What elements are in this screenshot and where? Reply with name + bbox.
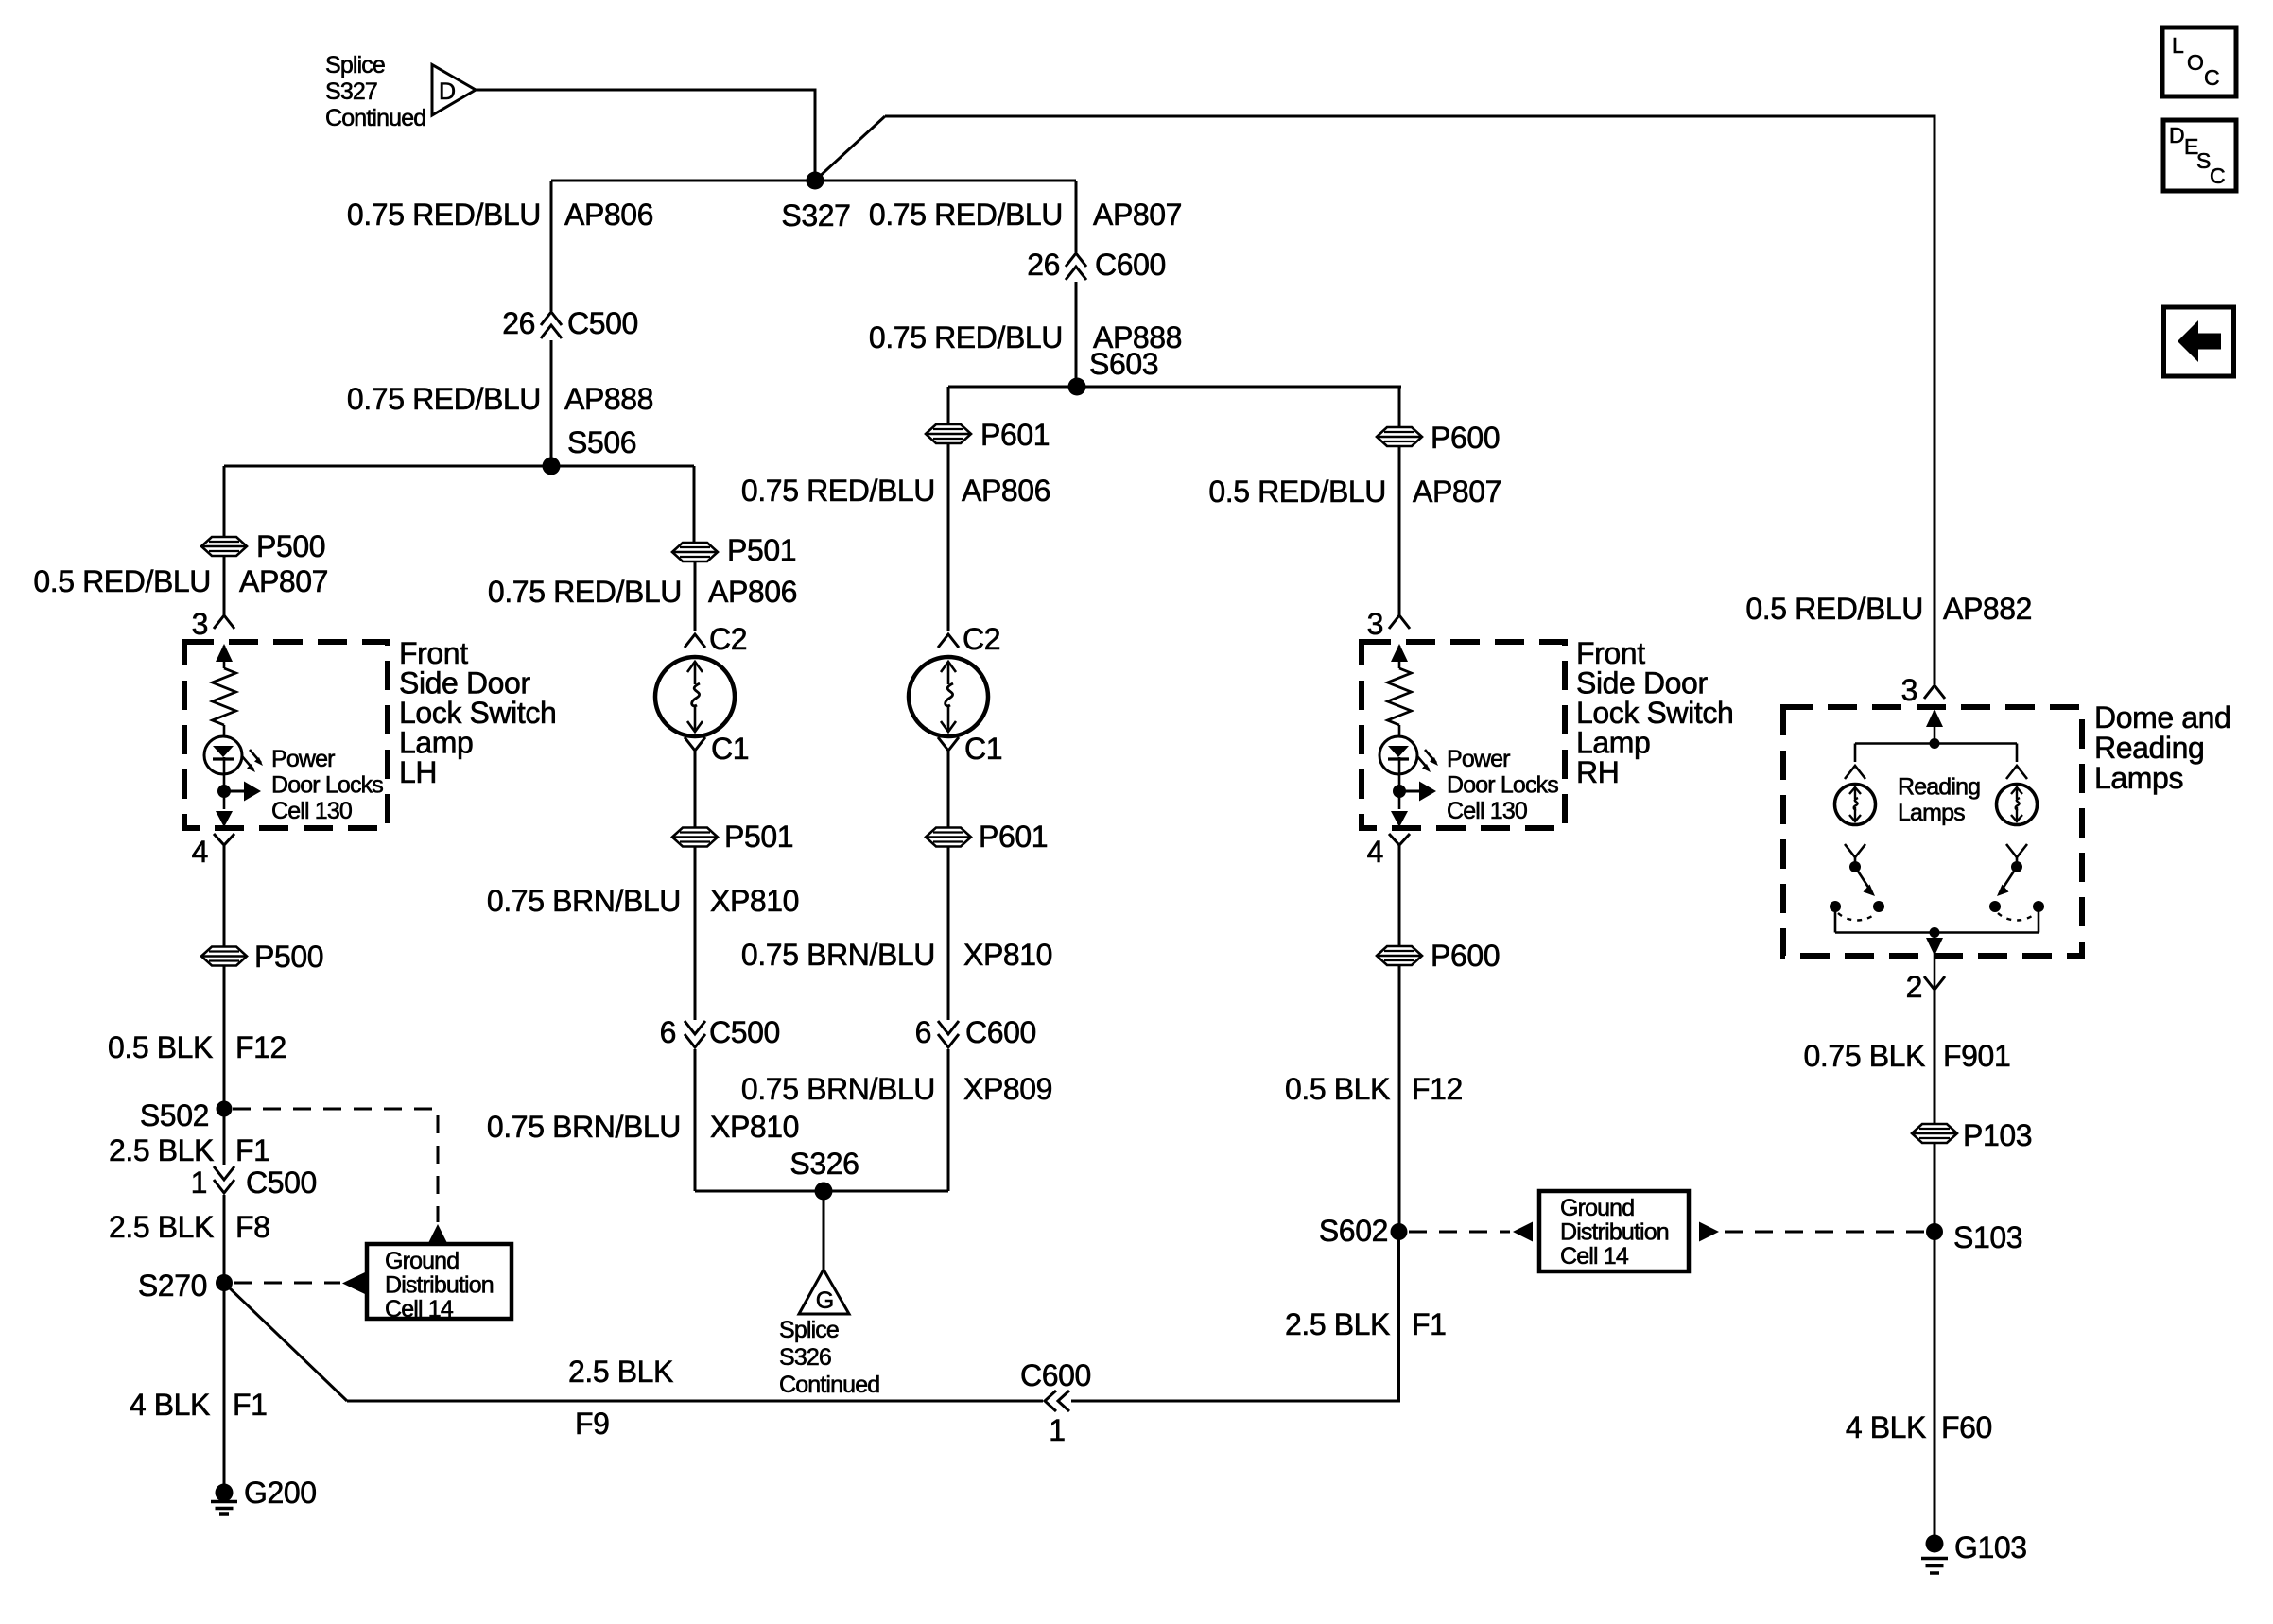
component box: dome and reading lamps: [1783, 707, 2082, 956]
wire: S326 bus: [695, 1190, 948, 1193]
svg-text:P600: P600: [1431, 939, 1500, 973]
svg-text:2.5 BLK: 2.5 BLK: [109, 1210, 214, 1244]
label: 0.5 RED/BLU AP807 (RH): [1208, 475, 1501, 509]
wire: S506 right drop to P501: [693, 466, 696, 542]
svg-text:S506: S506: [567, 425, 636, 459]
wire: S327 diagonal riser: [815, 116, 885, 181]
svg-text:G200: G200: [244, 1476, 317, 1510]
svg-text:Cell 130: Cell 130: [271, 798, 352, 824]
svg-text:0.5 RED/BLU: 0.5 RED/BLU: [33, 564, 211, 598]
wire: pin4 down to P600 lower: [1398, 845, 1401, 945]
lamp: reading lamp (left): [1835, 785, 1876, 825]
svg-text:AP806: AP806: [962, 474, 1050, 508]
svg-text:Distribution: Distribution: [1560, 1219, 1669, 1246]
pin chevron below right reading lamp: [2006, 844, 2027, 857]
svg-text:S327: S327: [325, 78, 377, 105]
wire: dome internal tee bus: [1855, 742, 2017, 745]
wire with arrow into box RH: [1391, 644, 1408, 668]
wire: AP807 segment to lock switch lamp LH: [223, 557, 226, 616]
wire with arrow into box LH: [216, 644, 233, 668]
svg-text:C600: C600: [1020, 1358, 1091, 1392]
svg-text:XP810: XP810: [963, 938, 1052, 972]
node and reference arrow to Power Door Locks (RH): [1393, 782, 1436, 802]
svg-text:6: 6: [915, 1015, 931, 1049]
svg-text:0.75 RED/BLU: 0.75 RED/BLU: [741, 474, 935, 508]
pin 2 of dome and reading lamps: [1906, 970, 1945, 1004]
label: 0.75 RED/BLU AP888: [347, 382, 653, 416]
wire: top feed to dome lamps: [885, 116, 1935, 684]
label: 0.75 RED/BLU AP806: [347, 198, 653, 232]
svg-text:Power: Power: [1447, 746, 1510, 772]
svg-text:0.75 BRN/BLU: 0.75 BRN/BLU: [487, 884, 681, 918]
connector C500 pin 6 (in-line chevrons): [660, 1015, 780, 1049]
label: 2.5 BLK F1 (LH): [109, 1133, 270, 1167]
node: dome feed tee: [1930, 738, 1940, 749]
svg-text:G103: G103: [1954, 1530, 2027, 1564]
svg-text:LH: LH: [399, 755, 437, 789]
dashed reference: S502 to Ground Distribution: [233, 1109, 448, 1244]
svg-text:1: 1: [191, 1166, 207, 1200]
wire: F1 segment: [223, 1109, 226, 1165]
node S326: [789, 1147, 859, 1201]
connector P103: [1912, 1118, 2032, 1152]
wire: S603 right drop to P600: [1398, 387, 1401, 426]
svg-text:4: 4: [192, 835, 208, 869]
wire: C1 down to P501 lower: [694, 751, 697, 827]
svg-text:C500: C500: [709, 1015, 780, 1049]
svg-text:Cell 130: Cell 130: [1447, 798, 1527, 824]
svg-text:0.75 BRN/BLU: 0.75 BRN/BLU: [741, 938, 935, 972]
label: 2.5 BLK F9: [568, 1355, 673, 1441]
wire: AP806 segment to courtesy lamp LH: [694, 562, 697, 632]
wire: dome bottom bus: [1835, 931, 2039, 934]
svg-text:P500: P500: [254, 940, 323, 974]
svg-text:Door Locks: Door Locks: [271, 772, 383, 799]
label: Front Side Door Lock Switch Lamp RH: [1576, 636, 1733, 789]
label: Front Side Door Lock Switch Lamp LH: [399, 636, 556, 789]
wire: XP810 segment to C600: [947, 847, 950, 1020]
LED lock switch lamp LH: [204, 736, 263, 774]
svg-text:Reading: Reading: [1898, 774, 1980, 801]
svg-text:0.75 RED/BLU: 0.75 RED/BLU: [488, 575, 682, 609]
svg-text:S326: S326: [789, 1147, 859, 1181]
switch: left reading lamp switch: [1830, 861, 1884, 921]
svg-text:Cell 14: Cell 14: [385, 1296, 454, 1322]
wire: resistor to LED RH: [1398, 725, 1401, 736]
wire: LED to node RH: [1398, 757, 1401, 809]
svg-text:0.5 RED/BLU: 0.5 RED/BLU: [1208, 475, 1386, 509]
svg-text:3: 3: [192, 607, 208, 641]
svg-text:S602: S602: [1319, 1214, 1388, 1248]
svg-text:Dome and: Dome and: [2094, 700, 2230, 734]
connector C500 pin 26 (in-line chevrons): [502, 306, 638, 340]
wire: left switch to bottom bus: [1834, 907, 1837, 933]
lamp: front side door courtesy lamp RH: [909, 657, 988, 736]
pin chevron below left reading lamp: [1845, 844, 1865, 857]
svg-text:Reading: Reading: [2094, 731, 2204, 765]
svg-text:F1: F1: [235, 1133, 270, 1167]
svg-text:2.5 BLK: 2.5 BLK: [568, 1355, 673, 1389]
svg-text:0.75 RED/BLU: 0.75 RED/BLU: [869, 198, 1063, 232]
splice continuation symbol G (Splice S326 Continued): [799, 1270, 849, 1314]
node S327: [781, 172, 850, 233]
connector C600 pin 1 on F9 run: [1020, 1358, 1091, 1447]
svg-text:AP806: AP806: [564, 198, 653, 232]
svg-text:0.75 BLK: 0.75 BLK: [1804, 1039, 1926, 1073]
svg-text:6: 6: [660, 1015, 676, 1049]
wire: AP888 segment to S603: [1075, 282, 1078, 387]
connector P600 (upper): [1377, 421, 1500, 455]
wire: AP807 drop from S327 (right): [1075, 181, 1078, 252]
connector P501 (lower): [672, 820, 793, 854]
svg-text:2: 2: [1906, 970, 1922, 1004]
label: 0.75 BRN/BLU XP810 (LH upper): [487, 884, 799, 918]
wire: F9 ground run (left part): [347, 1400, 1043, 1403]
svg-text:C2: C2: [709, 622, 747, 656]
svg-text:0.75 RED/BLU: 0.75 RED/BLU: [869, 320, 1063, 354]
svg-text:AP882: AP882: [1943, 592, 2032, 626]
svg-text:Lamps: Lamps: [2094, 761, 2183, 795]
splice continuation symbol D (Splice S327 Continued): [432, 65, 476, 116]
pin 3 of lock switch lamp RH: [1367, 607, 1410, 641]
svg-text:Cell 14: Cell 14: [1560, 1243, 1629, 1270]
wire: F1 segment to ground G200: [223, 1283, 226, 1484]
pin 3 of lock switch lamp LH: [192, 607, 234, 641]
connector P500 (lower): [201, 940, 323, 974]
connector C600 pin 26 (in-line chevrons): [1027, 248, 1166, 282]
svg-text:S603: S603: [1089, 347, 1158, 381]
svg-text:RH: RH: [1576, 755, 1619, 789]
svg-text:Splice: Splice: [779, 1317, 839, 1343]
wire: AP806 segment to courtesy lamp RH: [947, 444, 950, 632]
svg-text:Power: Power: [271, 746, 335, 772]
wire: F60 segment to ground G103: [1934, 1232, 1936, 1535]
label: 0.75 BLK F901: [1804, 1039, 2011, 1073]
svg-text:C600: C600: [1095, 248, 1166, 282]
node: dome bottom tee: [1930, 927, 1940, 938]
svg-text:2.5 BLK: 2.5 BLK: [1285, 1307, 1390, 1341]
svg-text:0.5 BLK: 0.5 BLK: [108, 1030, 213, 1064]
svg-text:Splice: Splice: [325, 52, 385, 78]
wire: splice D to S327: [476, 90, 815, 181]
svg-text:F1: F1: [1412, 1307, 1447, 1341]
svg-text:O: O: [2187, 50, 2204, 75]
svg-text:0.75 BRN/BLU: 0.75 BRN/BLU: [741, 1072, 935, 1106]
node S270: [138, 1269, 233, 1303]
wire: right switch to bottom bus: [2038, 907, 2040, 933]
label: 0.75 RED/BLU AP807: [869, 198, 1182, 232]
svg-text:C2: C2: [963, 622, 1000, 656]
pin 3 of dome and reading lamps: [1901, 673, 1945, 707]
label: Splice S327 Continued: [325, 52, 425, 131]
label: 0.75 RED/BLU AP806 (courtesy RH): [741, 474, 1050, 508]
svg-text:S270: S270: [138, 1269, 207, 1303]
label: 0.5 RED/BLU AP882: [1745, 592, 2032, 626]
wire with arrow out of dome box: [1926, 933, 1943, 999]
wire: S327 horizontal bus: [551, 180, 1076, 182]
node S506: [543, 425, 637, 475]
svg-text:0.75 RED/BLU: 0.75 RED/BLU: [347, 198, 541, 232]
node S602: [1319, 1214, 1408, 1248]
connector P601 (upper): [926, 418, 1050, 452]
connector C600 pin 6 (in-line chevrons): [915, 1015, 1036, 1049]
svg-text:C500: C500: [246, 1166, 317, 1200]
ground G103: [1921, 1530, 2027, 1573]
svg-text:0.5 RED/BLU: 0.5 RED/BLU: [1745, 592, 1923, 626]
node S103: [1926, 1220, 2022, 1254]
connector C500 pin 1 (in-line chevrons): [191, 1166, 317, 1200]
svg-text:0.75 RED/BLU: 0.75 RED/BLU: [347, 382, 541, 416]
svg-text:XP810: XP810: [710, 1110, 799, 1144]
svg-text:S103: S103: [1953, 1220, 2022, 1254]
reference icon box: LOC: [2162, 27, 2236, 96]
svg-text:P500: P500: [256, 529, 325, 563]
svg-text:P103: P103: [1963, 1118, 2032, 1152]
svg-text:4: 4: [1367, 835, 1383, 869]
node S502: [140, 1098, 233, 1132]
label: 0.5 BLK F12 (RH): [1285, 1072, 1463, 1106]
wire: left reading lamp drop: [1854, 744, 1857, 763]
svg-text:0.75 BRN/BLU: 0.75 BRN/BLU: [487, 1110, 681, 1144]
pin C1 of courtesy lamp LH: [685, 732, 749, 766]
switch: right reading lamp switch: [1989, 861, 2044, 921]
lamp: front side door courtesy lamp LH: [655, 657, 735, 736]
wire: right lamp to switch: [2016, 857, 2019, 867]
component box: front side door lock switch lamp LH: [184, 642, 388, 828]
label: Power Door Locks Cell 130 (RH): [1447, 746, 1558, 824]
pin C2 of courtesy lamp RH: [938, 622, 1000, 656]
wire: F12 segment to S602: [1398, 966, 1401, 1233]
wire: F901 segment to P103: [1934, 990, 1936, 1124]
svg-text:D: D: [2169, 123, 2185, 147]
svg-text:2.5 BLK: 2.5 BLK: [109, 1133, 214, 1167]
svg-text:P501: P501: [727, 533, 796, 567]
LED lock switch lamp RH: [1379, 736, 1438, 774]
svg-text:Distribution: Distribution: [385, 1272, 494, 1299]
pin 4 of lock switch lamp LH: [192, 834, 234, 869]
svg-text:XP809: XP809: [963, 1072, 1052, 1106]
connector P500 (upper): [201, 529, 325, 563]
resistor (lock switch lamp RH): [1388, 668, 1412, 725]
wire: F8 segment to S270: [223, 1195, 226, 1283]
connector P601 (lower): [926, 820, 1048, 854]
svg-text:AP807: AP807: [1093, 198, 1182, 232]
svg-text:P601: P601: [980, 418, 1050, 452]
svg-text:0.5 BLK: 0.5 BLK: [1285, 1072, 1390, 1106]
wire: S506 left drop to P500: [223, 466, 226, 536]
svg-text:3: 3: [1901, 673, 1917, 707]
wire: S506 horizontal bus: [224, 465, 694, 468]
pin C1 of courtesy lamp RH: [938, 732, 1002, 766]
svg-text:F12: F12: [235, 1030, 286, 1064]
resistor (lock switch lamp LH): [213, 668, 236, 725]
svg-text:S502: S502: [140, 1098, 209, 1132]
svg-text:D: D: [439, 78, 455, 105]
wire: AP882 drop to dome lamps: [1934, 116, 1936, 684]
label: 0.5 BLK F12 (LH): [108, 1030, 286, 1064]
wire with arrow out of box LH: [216, 811, 233, 827]
svg-text:Lamps: Lamps: [1898, 800, 1965, 826]
label: 4 BLK F1: [130, 1388, 268, 1422]
wire: pin4 down to P500 lower: [223, 845, 226, 946]
svg-text:P600: P600: [1431, 421, 1500, 455]
wire: right reading lamp drop: [2016, 744, 2019, 763]
svg-text:AP806: AP806: [708, 575, 797, 609]
label: Power Door Locks Cell 130 (LH): [271, 746, 383, 824]
svg-text:AP807: AP807: [239, 564, 328, 598]
svg-text:C1: C1: [711, 732, 749, 766]
label: 0.75 BRN/BLU XP809: [741, 1072, 1052, 1106]
svg-text:C: C: [2210, 164, 2226, 188]
wire: F12 segment to S502: [223, 966, 226, 1109]
svg-text:C600: C600: [965, 1015, 1036, 1049]
svg-text:4 BLK: 4 BLK: [130, 1388, 210, 1422]
wire: AP807 segment to lock switch lamp RH: [1398, 447, 1401, 616]
component box: front side door lock switch lamp RH: [1362, 642, 1565, 828]
label: Dome and Reading Lamps: [2094, 700, 2230, 795]
svg-text:F60: F60: [1941, 1410, 1992, 1444]
reference box: Ground Distribution Cell 14 (right): [1539, 1191, 1689, 1271]
svg-text:26: 26: [502, 306, 535, 340]
wire: C1 down to P601 lower: [947, 751, 950, 827]
svg-text:F12: F12: [1412, 1072, 1463, 1106]
svg-text:C1: C1: [964, 732, 1002, 766]
wire: left lamp to switch: [1854, 857, 1857, 867]
reference box: Ground Distribution Cell 14 (left): [367, 1244, 512, 1322]
svg-text:P601: P601: [979, 820, 1048, 854]
wire: resistor to LED LH: [223, 725, 226, 736]
svg-text:XP810: XP810: [710, 884, 799, 918]
lamp: reading lamp (right): [1997, 785, 2038, 825]
ground G200: [211, 1476, 317, 1514]
dashed reference: Ground Distribution to S103: [1699, 1222, 1925, 1242]
reference icon box: DESC: [2163, 120, 2236, 191]
dashed reference: S270 to Ground Distribution: [234, 1272, 365, 1294]
svg-text:Door Locks: Door Locks: [1447, 772, 1558, 799]
wire: S603 left drop to P601: [947, 387, 950, 423]
label: 0.5 RED/BLU AP807 (LH): [33, 564, 328, 598]
wire: F9 ground run (right part): [1071, 1232, 1399, 1401]
wire: XP810 segment to S326 bus: [694, 1049, 697, 1191]
svg-text:S326: S326: [779, 1344, 831, 1371]
label: 0.75 BRN/BLU XP810 (RH): [741, 938, 1052, 972]
svg-text:AP888: AP888: [564, 382, 653, 416]
svg-text:P501: P501: [724, 820, 793, 854]
wire: S270 diagonal to F9 run: [227, 1286, 347, 1401]
svg-text:G: G: [816, 1287, 834, 1314]
node S603: [1068, 347, 1159, 396]
svg-text:4 BLK: 4 BLK: [1846, 1410, 1926, 1444]
wire: S326 to splice continuation G: [823, 1191, 825, 1270]
label: Reading Lamps (inside box): [1898, 774, 1980, 827]
pin chevron above left reading lamp: [1845, 766, 1865, 779]
reference icon box: back arrow: [2164, 307, 2234, 376]
label: 4 BLK F60: [1846, 1410, 1992, 1444]
label: 0.75 RED/BLU AP806 (courtesy LH): [488, 575, 797, 609]
svg-text:S327: S327: [781, 199, 850, 233]
wire: XP810 segment to C500: [694, 847, 697, 1020]
pin chevron above right reading lamp: [2006, 766, 2027, 779]
svg-text:Ground: Ground: [1560, 1195, 1634, 1221]
svg-text:26: 26: [1027, 248, 1060, 282]
wire: LED to node LH: [223, 757, 226, 809]
label: 2.5 BLK F1 (RH): [1285, 1307, 1447, 1341]
wire with arrow into dome box: [1926, 709, 1943, 743]
dashed reference: S602 to Ground Distribution: [1409, 1222, 1533, 1242]
svg-text:L: L: [2172, 33, 2184, 58]
svg-text:F1: F1: [233, 1388, 268, 1422]
node and reference arrow to Power Door Locks (LH): [217, 782, 261, 802]
pin C2 of courtesy lamp LH: [685, 622, 747, 656]
connector P501 (upper): [672, 533, 796, 567]
label: 0.75 BRN/BLU XP810 (LH lower): [487, 1110, 799, 1144]
label: Splice S326 Continued: [779, 1317, 879, 1398]
label: 2.5 BLK F8: [109, 1210, 270, 1244]
svg-text:C500: C500: [567, 306, 638, 340]
wire: XP809 segment to S326 bus: [947, 1049, 950, 1191]
wire: AP806 drop from S327: [550, 181, 553, 311]
label: 0.75 RED/BLU AP888 (right): [869, 320, 1182, 354]
svg-text:AP807: AP807: [1413, 475, 1501, 509]
svg-text:1: 1: [1049, 1413, 1065, 1447]
svg-text:Continued: Continued: [779, 1372, 879, 1398]
svg-text:C: C: [2204, 65, 2220, 90]
svg-text:Continued: Continued: [325, 105, 425, 131]
svg-text:F9: F9: [575, 1407, 610, 1441]
wire with arrow out of box RH: [1391, 811, 1408, 827]
connector P600 (lower): [1377, 939, 1500, 973]
wire: P103 to S103: [1934, 1144, 1936, 1233]
pin 4 of lock switch lamp RH: [1367, 834, 1410, 869]
svg-text:Ground: Ground: [385, 1248, 459, 1274]
wire: AP888 segment to S506: [550, 340, 553, 466]
svg-text:3: 3: [1367, 607, 1383, 641]
svg-text:F8: F8: [235, 1210, 270, 1244]
wire: S603 horizontal bus: [948, 386, 1401, 389]
svg-text:F901: F901: [1943, 1039, 2010, 1073]
